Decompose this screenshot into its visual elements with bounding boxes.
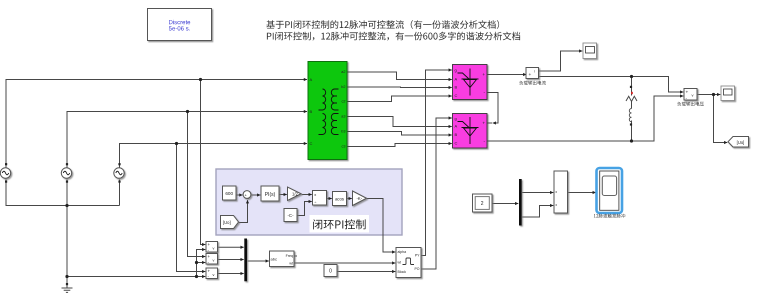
- svg-text:+: +: [208, 254, 211, 259]
- svg-text:-K-: -K-: [357, 196, 363, 201]
- svg-text:v: v: [213, 247, 215, 251]
- svg-text:A: A: [310, 77, 313, 82]
- svg-text:0: 0: [329, 269, 332, 275]
- svg-text:PI(s): PI(s): [265, 192, 276, 198]
- svg-text:+: +: [482, 121, 485, 126]
- svg-text:1/2: 1/2: [292, 192, 298, 197]
- svg-text:A: A: [455, 77, 458, 82]
- svg-text:+: +: [208, 242, 211, 247]
- svg-text:c3: c3: [341, 145, 345, 149]
- svg-text:alpha: alpha: [398, 250, 407, 254]
- svg-text:600: 600: [225, 191, 233, 196]
- svg-text:+: +: [208, 269, 211, 274]
- svg-text:PO: PO: [414, 267, 419, 271]
- svg-text:wt: wt: [398, 261, 402, 265]
- svg-text:[Uo]: [Uo]: [737, 140, 745, 145]
- svg-text:a2: a2: [341, 70, 345, 74]
- svg-text:wt: wt: [289, 262, 293, 266]
- svg-text:abc: abc: [271, 257, 277, 262]
- svg-text:A: A: [455, 124, 458, 129]
- svg-text:g: g: [455, 68, 457, 73]
- svg-text:[Uo]: [Uo]: [223, 220, 231, 225]
- svg-text:C: C: [310, 141, 313, 146]
- svg-text:g: g: [455, 116, 457, 121]
- svg-text:v: v: [692, 93, 694, 98]
- svg-text:v: v: [213, 259, 215, 263]
- svg-text:Freq: Freq: [286, 254, 293, 258]
- svg-text:acos: acos: [335, 196, 344, 201]
- svg-text:c2: c2: [341, 100, 345, 104]
- svg-text:b3: b3: [341, 130, 345, 134]
- svg-text:PY: PY: [415, 254, 420, 258]
- svg-text:B: B: [455, 132, 458, 137]
- svg-text:a3: a3: [341, 115, 345, 119]
- svg-text:C: C: [455, 141, 458, 146]
- svg-text:2: 2: [481, 201, 484, 207]
- svg-text:+: +: [482, 72, 485, 77]
- svg-text:v: v: [213, 273, 215, 277]
- svg-text:Block: Block: [398, 270, 407, 274]
- svg-text:B: B: [310, 109, 313, 114]
- svg-text:+: +: [529, 73, 532, 78]
- svg-text:B: B: [455, 85, 458, 90]
- svg-text:-C-: -C-: [287, 213, 294, 218]
- svg-text:C: C: [455, 93, 458, 98]
- svg-text:b2: b2: [341, 85, 345, 89]
- svg-text:x: x: [314, 192, 316, 197]
